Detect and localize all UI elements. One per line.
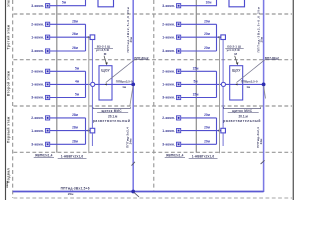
riser section tick (left): [132, 162, 135, 166]
svg-text:разветвительный: разветвительный: [93, 119, 131, 123]
svg-text:20м: 20м: [204, 113, 210, 117]
meter top-l: [46, 4, 50, 8]
svg-text:4м: 4м: [75, 79, 80, 83]
wire riser-drop Pl: [85, 118, 87, 144]
svg-text:20м: 20м: [259, 36, 263, 42]
svg-text:2-комн.: 2-комн.: [162, 23, 175, 27]
svg-text:28м: 28м: [72, 126, 78, 130]
wire riser-drop Tr: [216, 24, 218, 51]
junction circle Vl: [91, 82, 95, 86]
svg-text:20м: 20м: [204, 32, 210, 36]
svg-text:ППТмд-3Вх2,5+6: ППТмд-3Вх2,5+6: [61, 187, 90, 191]
SCHOU panel box (left): [99, 66, 112, 100]
svg-text:24м: 24м: [259, 138, 263, 144]
svg-text:3-комн.: 3-комн.: [31, 49, 44, 53]
svg-text:1-АВВГх2х1,6: 1-АВВГх2х1,6: [192, 154, 215, 158]
riser junction dot (right): [262, 83, 266, 87]
floor separator 1: [14, 13, 293, 15]
meter Vl2: [46, 82, 50, 86]
junction arrow Pl: [88, 130, 90, 132]
svg-text:Второй этаж: Второй этаж: [7, 71, 11, 97]
wire Tl2: [50, 36, 90, 38]
svg-text:26м: 26м: [72, 46, 78, 50]
meter Pl3: [46, 142, 50, 146]
shaft wire blue (right): [222, 40, 224, 146]
svg-text:3-комн.: 3-комн.: [162, 49, 175, 53]
svg-text:28м: 28м: [72, 19, 78, 23]
meter Tr2: [177, 35, 181, 39]
svg-text:5м: 5м: [75, 93, 80, 97]
meter Tl2: [46, 35, 50, 39]
feed line to riser (left): [95, 83, 133, 85]
svg-text:Подвал: Подвал: [7, 168, 11, 183]
svg-text:этаж: этаж: [6, 0, 10, 7]
svg-text:5м: 5м: [62, 1, 67, 5]
wire Pl2: [50, 130, 90, 132]
feed line to riser (right): [226, 83, 264, 85]
meter Tr3: [177, 49, 181, 53]
svg-text:20.1.м: 20.1.м: [239, 114, 249, 118]
note arrow (left): [104, 56, 106, 63]
wall dashed left: [12, 0, 14, 198]
wire riser-drop Vr: [216, 71, 218, 97]
junction arrow Tl: [88, 36, 90, 38]
svg-text:ППВрх3,5-0: ППВрх3,5-0: [116, 80, 133, 84]
meter Tl3: [46, 49, 50, 53]
main line junction dot: [131, 190, 135, 194]
svg-text:28м: 28м: [72, 113, 78, 117]
svg-text:ЩОУ: ЩОУ: [101, 69, 110, 73]
border left: [5, 0, 7, 200]
svg-text:20м: 20м: [204, 46, 210, 50]
main supply line (basement): [13, 191, 264, 193]
SCHOU panel box (right): [230, 66, 243, 100]
svg-text:2-комн.: 2-комн.: [31, 23, 44, 27]
svg-text:5м: 5м: [193, 79, 198, 83]
feed arrow (left): [105, 83, 107, 85]
riser junction dot (left): [131, 83, 135, 87]
wire Vl2: [50, 83, 90, 85]
wire Vr2: [181, 83, 221, 85]
svg-text:3-комн.: 3-комн.: [31, 143, 44, 147]
wire top-r: [181, 0, 217, 6]
svg-text:3-комн.: 3-комн.: [162, 143, 175, 147]
svg-text:ввод: ввод: [5, 181, 9, 188]
wire Pr2: [181, 130, 221, 132]
shaft wire blue (left): [91, 40, 93, 146]
wire riser-drop Tl: [85, 24, 87, 51]
riser section tick (right): [261, 160, 265, 164]
floor junction box Pr: [221, 128, 226, 133]
svg-text:2-комн.: 2-комн.: [162, 116, 175, 120]
svg-text:ВП7-80х2: ВП7-80х2: [265, 56, 279, 60]
svg-text:2-комн.: 2-комн.: [31, 116, 44, 120]
VP7 leader (left): [106, 60, 135, 83]
wall dashed middle: [153, 0, 155, 192]
svg-text:щиток МИС: щиток МИС: [102, 109, 123, 113]
svg-text:20м: 20м: [68, 192, 74, 196]
svg-text:ВП7-80х2: ВП7-80х2: [134, 56, 148, 60]
junction arrow Tr: [219, 36, 221, 38]
meter Vl3: [46, 95, 50, 99]
VP7 leader (right): [237, 60, 265, 83]
wire Tl3: [50, 50, 86, 52]
wire riser-drop Vl: [85, 71, 87, 97]
building shaft line left: [56, 0, 58, 153]
floor separator 5: [14, 197, 293, 199]
meter Vl1: [46, 69, 50, 73]
building shaft line right: [195, 0, 197, 153]
svg-text:28м: 28м: [72, 139, 78, 143]
shaft conduit gray (right): [219, 37, 221, 153]
wire Pl3: [50, 143, 86, 145]
svg-text:уст.3,5 Ф: уст.3,5 Ф: [96, 48, 110, 52]
wire Vr3: [181, 97, 217, 99]
svg-text:Первый этаж: Первый этаж: [7, 116, 11, 143]
svg-text:26м: 26м: [72, 32, 78, 36]
meter top-r: [177, 4, 181, 8]
wire riser-drop Pr: [216, 118, 218, 144]
wire Tr1: [181, 23, 217, 25]
svg-text:1-комн.: 1-комн.: [31, 83, 44, 87]
svg-text:20м: 20м: [204, 139, 210, 143]
wire Vl3: [50, 97, 86, 99]
meter Vr1: [177, 69, 181, 73]
svg-text:15м: 15м: [193, 66, 199, 70]
meter Pr3: [177, 142, 181, 146]
leader from dot (right): [264, 86, 266, 98]
svg-text:3-комн.: 3-комн.: [31, 96, 44, 100]
svg-text:ЯВП62х1,4: ЯВП62х1,4: [166, 154, 184, 158]
svg-text:3-комн.: 3-комн.: [162, 96, 175, 100]
main line junction tick: [134, 192, 139, 197]
junction circle Vr: [221, 82, 225, 86]
svg-text:1-комн.: 1-комн.: [162, 83, 175, 87]
floor box (cut) top-l: [98, 0, 114, 7]
floor separator 4: [14, 151, 293, 153]
distribution box bracket (left): [93, 107, 130, 109]
meter Vr2: [177, 82, 181, 86]
wire Pr1: [181, 117, 217, 119]
svg-text:1-комн.: 1-комн.: [31, 129, 44, 133]
meter Pl1: [46, 116, 50, 120]
svg-text:20м: 20м: [204, 19, 210, 23]
svg-text:20.1.м: 20.1.м: [108, 114, 118, 118]
wire Tr3: [181, 50, 217, 52]
floor separator 3: [14, 105, 293, 107]
svg-text:2-комн.: 2-комн.: [31, 70, 44, 74]
svg-text:М: М: [234, 52, 237, 56]
floor junction box Tr: [221, 35, 226, 40]
border right: [292, 0, 294, 200]
svg-text:2-комн.: 2-комн.: [162, 70, 175, 74]
svg-text:1-АВВГх2х1,6: 1-АВВГх2х1,6: [61, 154, 84, 158]
svg-text:ЩОУ: ЩОУ: [232, 69, 241, 73]
wire Tr2: [181, 36, 221, 38]
svg-text:ППВрх3,5-0: ППВрх3,5-0: [241, 80, 258, 84]
meter Vr3: [177, 95, 181, 99]
riser stoyak 2 (right): [263, 0, 265, 192]
wire Vl1: [50, 70, 86, 72]
junction arrow Pr: [219, 130, 221, 132]
distribution box bracket (right): [224, 107, 261, 109]
riser stoyak 1 (left): [132, 0, 134, 192]
svg-text:3-комн.: 3-комн.: [162, 4, 175, 8]
wire Pl1: [50, 117, 86, 119]
svg-text:уст.3,5 Ф: уст.3,5 Ф: [227, 48, 241, 52]
svg-text:разветвительный: разветвительный: [223, 119, 261, 123]
svg-text:5м: 5м: [75, 66, 80, 70]
floor junction box Tl: [90, 35, 95, 40]
svg-text:1-комн.: 1-комн.: [162, 35, 175, 39]
note arrow (right): [235, 56, 237, 63]
svg-text:ЯВП62х1,4: ЯВП62х1,4: [35, 154, 53, 158]
svg-text:ППТмд-3Вх2,5+6,6 20м: ППТмд-3Вх2,5+6,6 20м: [126, 6, 130, 52]
meter Tl1: [46, 22, 50, 26]
svg-text:15м: 15м: [193, 93, 199, 97]
svg-text:10м: 10м: [206, 1, 212, 5]
meter Pl2: [46, 129, 50, 133]
meter Tr1: [177, 22, 181, 26]
meter Pr1: [177, 116, 181, 120]
svg-text:щиток МИС: щиток МИС: [232, 109, 253, 113]
wire Vr1: [181, 70, 217, 72]
svg-text:24м: 24м: [129, 138, 133, 144]
wire top-l: [50, 0, 86, 6]
floor box (cut) top-r: [229, 0, 245, 7]
svg-text:20м: 20м: [204, 126, 210, 130]
svg-text:1-комн.: 1-комн.: [31, 35, 44, 39]
feed arrow (right): [235, 83, 237, 85]
svg-text:М: М: [104, 52, 107, 56]
svg-text:1-комн.: 1-комн.: [162, 129, 175, 133]
floor separator 2: [14, 59, 293, 61]
svg-text:20м: 20м: [129, 36, 133, 42]
leader from dot (left): [130, 86, 133, 106]
wire Tl1: [50, 23, 86, 25]
meter Pr2: [177, 129, 181, 133]
shaft conduit gray (left): [88, 37, 90, 153]
wire Pr3: [181, 143, 217, 145]
floor junction box Pl: [90, 128, 95, 133]
svg-text:3-комн.: 3-комн.: [31, 4, 44, 8]
svg-text:ППТмд-3Вх2,5+6,6 20м: ППТмд-3Вх2,5+6,6 20м: [257, 6, 261, 52]
svg-text:Третий этаж: Третий этаж: [7, 24, 11, 49]
